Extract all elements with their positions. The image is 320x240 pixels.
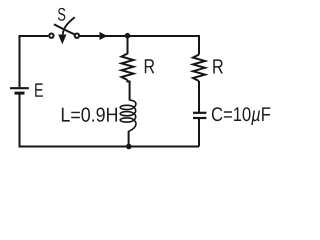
label S (switch) bbox=[58, 8, 65, 21]
inductor L coil turn 1 bbox=[120, 105, 133, 109]
switch S right terminal bbox=[75, 34, 79, 38]
wire middle branch upper (top node to resistor R1) bbox=[127, 36, 129, 54]
wire top-right segment (switch right terminal to top-right corner) bbox=[80, 36, 199, 55]
capacitor C bottom plate bbox=[193, 117, 206, 119]
resistor R2 (right branch) bbox=[193, 55, 205, 82]
inductor L top hook bbox=[130, 100, 136, 107]
label E (battery) bbox=[35, 83, 43, 96]
node junction dot bottom (middle branch) bbox=[126, 144, 132, 150]
inductor L coil turn 2 bbox=[120, 112, 133, 116]
label R (right resistor) bbox=[213, 59, 223, 73]
label L=0.9H (inductor value) bbox=[62, 108, 117, 122]
switch S closing-motion arc bbox=[63, 17, 75, 34]
label C=10uF (capacitor value) bbox=[212, 107, 270, 125]
capacitor C top plate bbox=[193, 112, 206, 114]
wire jog between resistor R1 and inductor L bbox=[128, 80, 130, 100]
wire right branch middle (resistor R2 to capacitor C) bbox=[198, 81, 200, 112]
inductor L right arc 1 bbox=[133, 107, 135, 113]
wire middle branch lower (inductor L to bottom node) bbox=[128, 131, 130, 147]
inductor L right arc 2 bbox=[133, 114, 135, 120]
inductor L bottom hook bbox=[129, 120, 136, 131]
current direction arrow on top wire bbox=[100, 32, 108, 40]
battery E negative plate (short) bbox=[15, 92, 25, 95]
wire left lower segment (battery to bottom-left corner) and bottom wire bbox=[20, 94, 200, 146]
switch S closing-motion arrowhead bbox=[58, 35, 66, 45]
wire top-left segment (corner to switch left terminal) bbox=[20, 36, 49, 87]
resistor R1 (middle branch) bbox=[122, 54, 134, 81]
inductor L coil turn 3 bbox=[120, 118, 133, 122]
label R (middle resistor) bbox=[145, 59, 155, 73]
switch S left terminal bbox=[49, 34, 53, 38]
switch S blade (hinged at right terminal, open to upper-left) bbox=[54, 24, 75, 34]
wire right lower segment (capacitor to bottom-right corner) bbox=[198, 119, 200, 147]
battery E positive plate (long) bbox=[10, 87, 29, 89]
node junction dot top (middle branch) bbox=[125, 33, 131, 39]
